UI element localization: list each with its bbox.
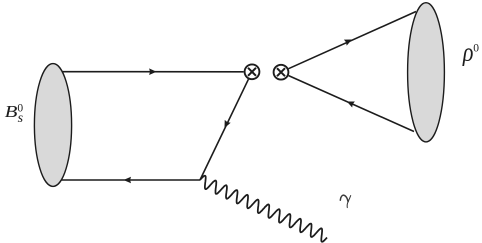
arrow on bottom antiquark line (pointing left) — [124, 177, 131, 184]
wire: quark line from B_s blob to left weak vertex — [60, 71, 244, 73]
label B_s^0 — [5, 102, 24, 126]
arrow on diagonal quark line (pointing toward photon vertex) — [222, 120, 231, 130]
arrow on bottom right antiquark line (pointing toward weak vertex) — [345, 98, 354, 107]
wire: antiquark line from photon vertex back to B_s blob — [60, 179, 200, 181]
wire: quark line from right weak vertex to rho blob (top) — [289, 12, 417, 69]
svg-text:0: 0 — [473, 43, 479, 55]
photon wavy line (gamma) emitted from photon vertex — [200, 176, 327, 242]
arrow on top right quark line (pointing toward rho blob) — [344, 37, 353, 46]
blob rho^0 (right meson ellipse) — [408, 3, 445, 142]
weak-interaction vertex operator 1 (crossed circle, left) — [245, 64, 260, 79]
svg-text:ρ: ρ — [462, 38, 474, 68]
svg-text:B: B — [5, 102, 19, 121]
label gamma — [340, 195, 350, 207]
label rho^0 — [462, 38, 479, 68]
svg-text:s: s — [18, 111, 24, 126]
wire: antiquark line from rho blob back to right weak vertex (bottom) — [289, 76, 414, 132]
blob B_s^0 (left hadron ellipse) — [34, 64, 71, 187]
wire: quark line from left weak vertex down to photon vertex — [200, 79, 248, 180]
weak-interaction vertex operator 2 (crossed circle, right) — [274, 65, 289, 80]
arrow on top quark line (pointing right) — [149, 68, 156, 75]
